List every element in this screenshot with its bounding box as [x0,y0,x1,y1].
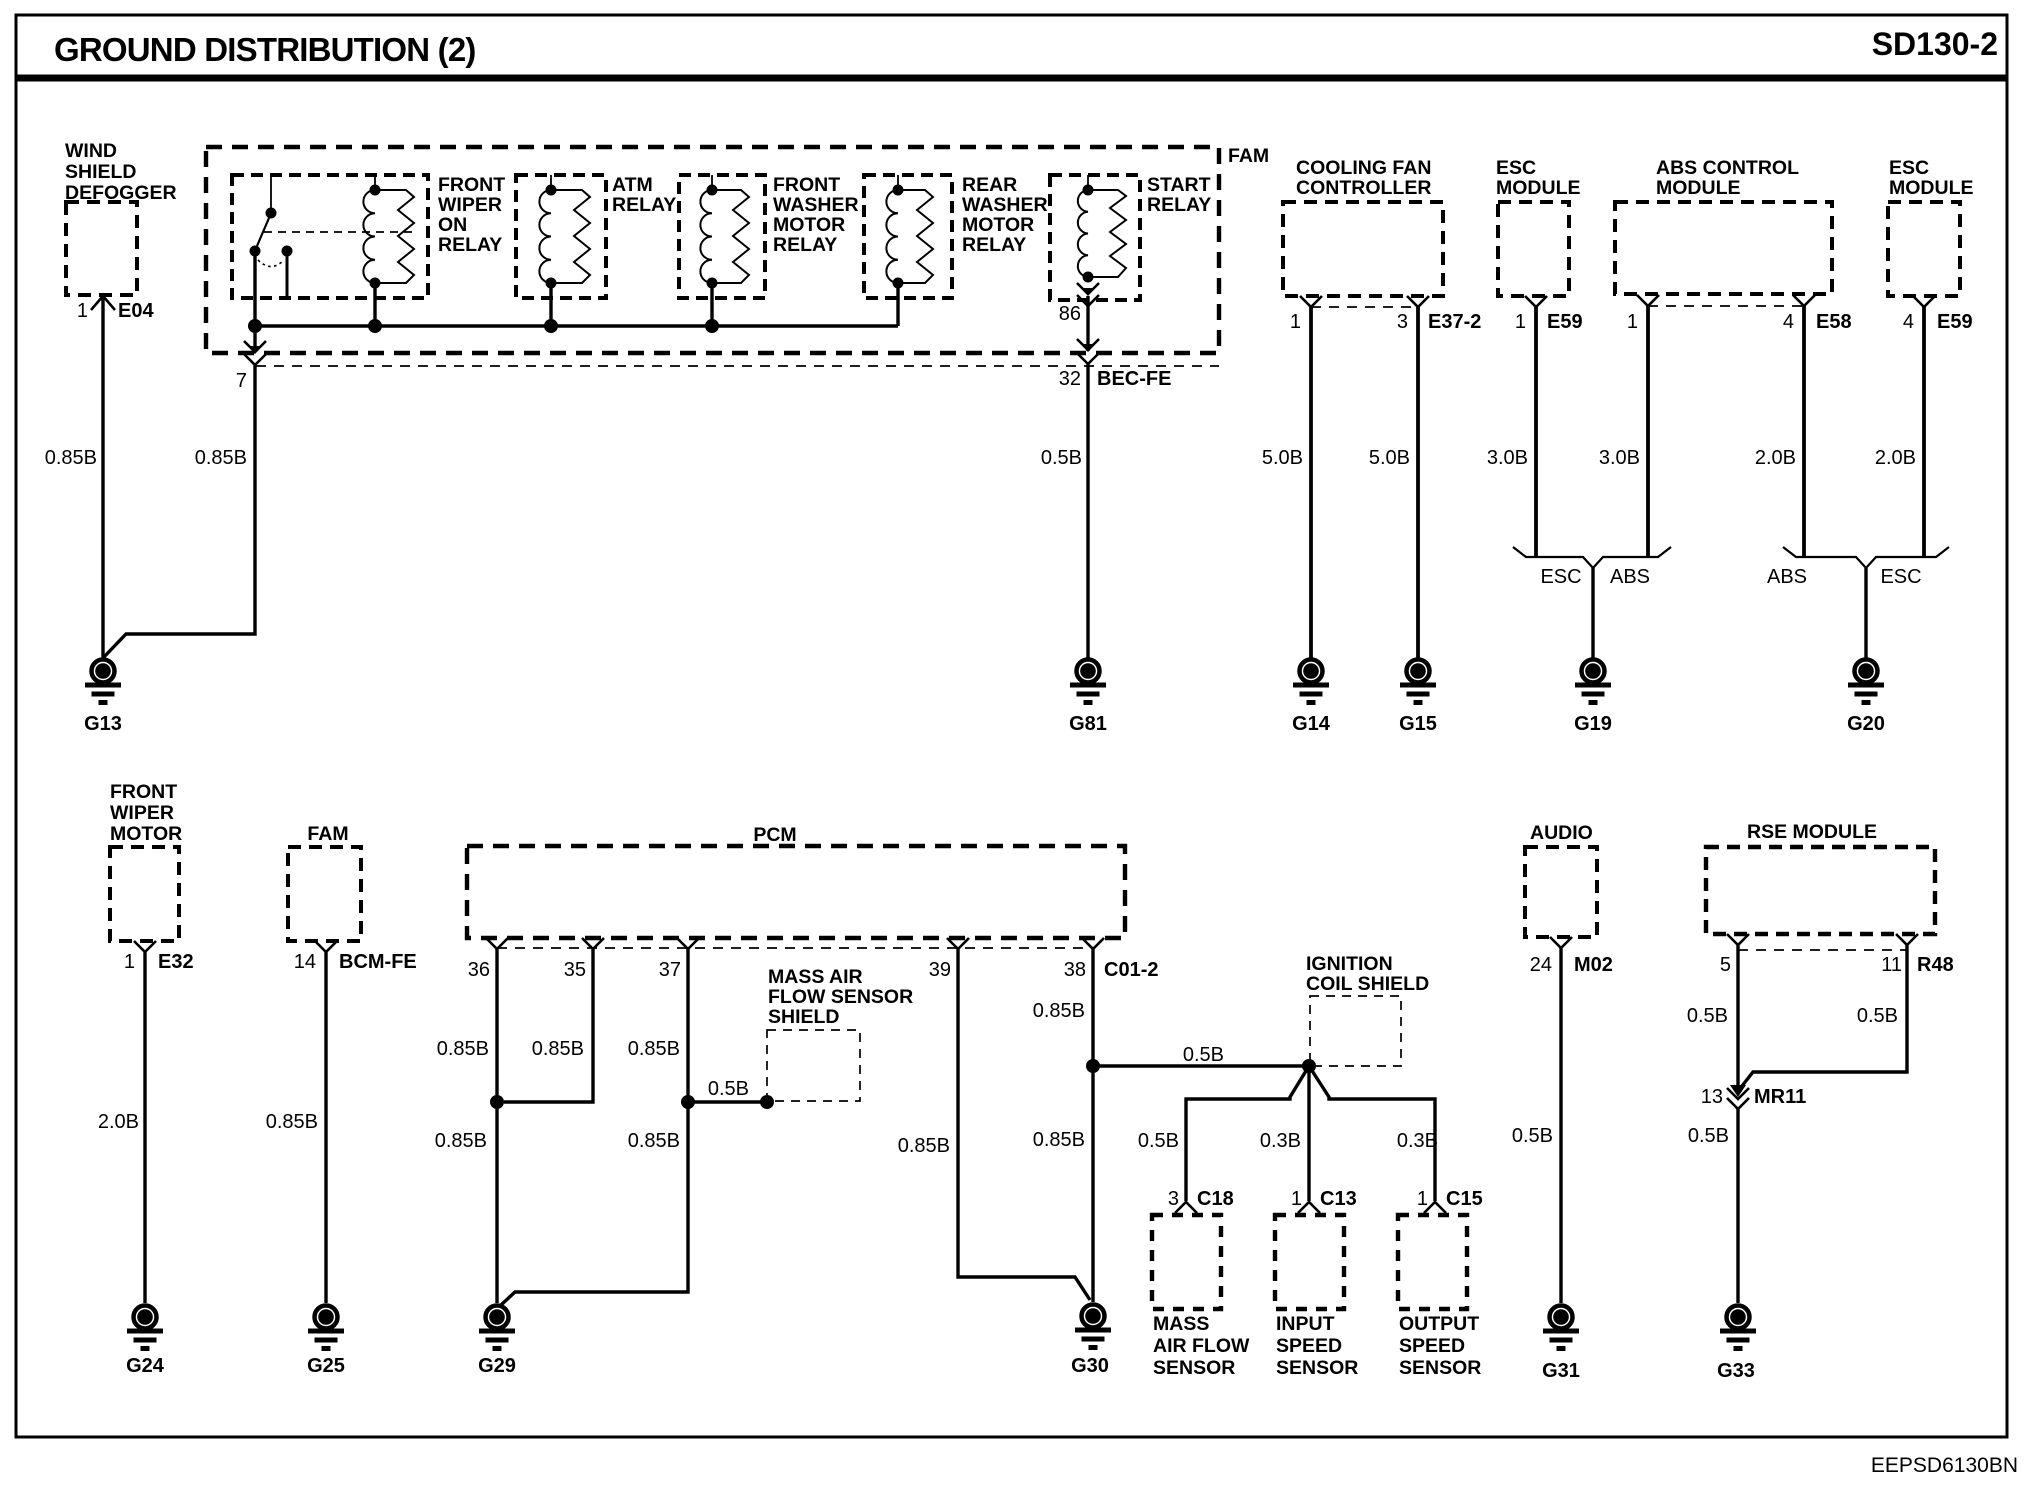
wire 0.5B to mass air flow sensor shield [688,1100,767,1103]
svg-text:SHIELD: SHIELD [65,161,137,183]
svg-text:G31: G31 [1542,1360,1580,1382]
coil of front washer motor relay [700,175,717,289]
svg-text:ABS: ABS [1767,566,1807,588]
svg-text:2.0B: 2.0B [1755,447,1796,469]
svg-text:AUDIO: AUDIO [1530,822,1593,844]
component MASS AIR FLOW SENSOR [1152,1215,1250,1379]
junction bus at switch [248,319,262,333]
wire E32 to G24 [143,952,146,1303]
component AUDIO [1525,822,1597,937]
thin dashed strip under RSE module [1738,949,1907,951]
svg-text:0.85B: 0.85B [628,1130,680,1152]
wire pin 7 to G13 [104,365,255,657]
component FAM bottom [288,823,361,941]
connector pin 1 E04 [77,296,155,322]
svg-text:R48: R48 [1917,954,1954,976]
component ESC MODULE right [1888,157,1974,296]
relay ATM RELAY [516,174,676,298]
svg-text:3: 3 [1397,311,1408,333]
svg-text:INPUT: INPUT [1276,1313,1335,1335]
svg-text:FRONT: FRONT [110,781,177,803]
wire branch to C13 [1307,1066,1310,1201]
wire label 0.85B pin38 lower [1033,1129,1085,1151]
wire label 0.5B shield [708,1078,749,1100]
svg-text:1: 1 [77,300,88,322]
svg-text:0.85B: 0.85B [1033,1000,1085,1022]
svg-text:E58: E58 [1816,311,1852,333]
wire branch to C18 [1186,1066,1309,1201]
svg-text:0.85B: 0.85B [266,1111,318,1133]
splice bracket ABS/ESC to G20 [1767,547,1949,588]
svg-text:1: 1 [1291,1188,1302,1210]
junction pin38 ignition tap [1086,1059,1100,1073]
svg-text:G81: G81 [1069,713,1107,735]
svg-text:MOTOR: MOTOR [773,214,845,236]
wire label 0.85B pin37 upper [628,1038,680,1060]
svg-text:START: START [1147,174,1211,196]
connector pin 35 [564,938,604,981]
coil of rear washer motor relay [886,175,903,289]
svg-text:3.0B: 3.0B [1599,447,1640,469]
svg-text:RELAY: RELAY [1147,194,1211,216]
ground G30 [1071,1305,1111,1378]
svg-text:1: 1 [124,951,135,973]
wire label 0.5B MR11 [1688,1125,1729,1147]
svg-text:39: 39 [929,959,951,981]
svg-text:MASS AIR: MASS AIR [768,966,863,988]
wire M02 to G31 [1559,948,1562,1303]
svg-text:0.5B: 0.5B [1138,1130,1179,1152]
svg-text:MODULE: MODULE [1656,177,1741,199]
svg-text:FRONT: FRONT [773,174,840,196]
wire label 0.85B FAM [266,1111,318,1133]
svg-text:ABS CONTROL: ABS CONTROL [1656,157,1799,179]
svg-text:36: 36 [468,959,490,981]
svg-text:SENSOR: SENSOR [1153,1357,1235,1379]
svg-text:0.85B: 0.85B [435,1130,487,1152]
svg-text:COOLING FAN: COOLING FAN [1296,157,1431,179]
svg-text:IGNITION: IGNITION [1306,953,1393,975]
svg-text:38: 38 [1064,959,1086,981]
ground G19 [1574,660,1612,736]
wire 86 to 32 [1086,296,1089,351]
connector pin 1 C15 [1417,1188,1483,1213]
svg-text:MOTOR: MOTOR [110,823,182,845]
connector pin 3 C18 [1168,1188,1234,1213]
component WIND SHIELD DEFOGGER [65,140,177,295]
svg-text:0.5B: 0.5B [1687,1005,1728,1027]
junction pin37 shield tap [681,1095,695,1109]
wire label 0.3B C15 [1397,1130,1438,1152]
wire label 0.5B ignition [1183,1044,1224,1066]
svg-text:0.3B: 0.3B [1260,1130,1301,1152]
svg-text:0.85B: 0.85B [532,1038,584,1060]
junction bus at FWM coil [705,319,719,333]
ground G14 [1292,660,1331,736]
svg-text:FAM: FAM [1228,145,1269,167]
svg-text:ABS: ABS [1610,566,1650,588]
connector pin 1 E58 [1627,295,1659,333]
svg-text:3: 3 [1168,1188,1179,1210]
svg-text:0.85B: 0.85B [1033,1129,1085,1151]
svg-text:E59: E59 [1547,311,1583,333]
connector pin 14 BCM-FE [294,941,417,973]
svg-text:OUTPUT: OUTPUT [1399,1313,1479,1335]
wire pin35 to junction [504,949,593,1102]
svg-text:FLOW SENSOR: FLOW SENSOR [768,986,913,1008]
svg-text:ATM: ATM [612,174,653,196]
svg-text:FAM: FAM [307,823,348,845]
component INPUT SPEED SENSOR [1275,1215,1358,1379]
ground G20 [1847,660,1885,736]
ground G15 [1399,660,1437,736]
svg-text:G19: G19 [1574,713,1612,735]
svg-text:1: 1 [1627,311,1638,333]
svg-text:4: 4 [1783,311,1794,333]
svg-text:ESC: ESC [1496,157,1536,179]
wire switch to bus [253,255,256,326]
svg-text:WASHER: WASHER [962,194,1048,216]
wire label 0.5B pin11 [1857,1005,1898,1027]
ground G25 [307,1306,345,1378]
svg-text:0.85B: 0.85B [898,1135,950,1157]
wire label 0.85B pin35 [532,1038,584,1060]
junction pin36/pin35 [490,1095,504,1109]
wire pin5 to MR11 [1736,945,1739,1090]
svg-text:5.0B: 5.0B [1262,447,1303,469]
svg-text:0.85B: 0.85B [437,1038,489,1060]
connector pin 36 [468,938,508,981]
component IGNITION COIL SHIELD [1306,953,1429,1066]
relay FRONT WASHER MOTOR RELAY [679,174,859,298]
wire FAM ground bus [255,288,898,326]
svg-text:G20: G20 [1847,713,1885,735]
ground G13 [84,660,122,736]
connector pin 4 E59 [1903,296,1973,333]
svg-text:SPEED: SPEED [1276,1335,1342,1357]
svg-text:MR11: MR11 [1754,1086,1806,1108]
wire label 0.85B pin7 [195,447,247,469]
svg-text:SPEED: SPEED [1399,1335,1465,1357]
svg-text:7: 7 [236,370,247,392]
wire ESC2 pin4 down [1922,307,1926,557]
connector pin 1 C13 [1291,1188,1357,1213]
resistor of ATM relay [551,190,590,283]
wire pin3 to G15 [1416,307,1420,658]
title GROUND DISTRIBUTION (2) [54,31,476,68]
wire label 0.3B C13 [1260,1130,1301,1152]
wire ABS pin4 down [1802,306,1806,557]
svg-text:3.0B: 3.0B [1487,447,1528,469]
resistor of front washer motor relay [712,190,749,283]
wire label 0.5B BEC-FE [1041,447,1082,469]
connector pin 3 E37-2 [1397,296,1482,333]
wire label 5.0B left [1262,447,1303,469]
switch in front wiper on relay [250,175,415,298]
wire 32 to G81 [1086,364,1089,658]
svg-text:14: 14 [294,951,316,973]
svg-text:0.5B: 0.5B [1183,1044,1224,1066]
coil of ATM relay [539,175,556,289]
wire label 3.0B left [1487,447,1528,469]
wire label 2.0B left [1755,447,1796,469]
svg-text:G24: G24 [126,1355,165,1377]
svg-text:RELAY: RELAY [773,234,837,256]
svg-text:2.0B: 2.0B [1875,447,1916,469]
wire pin38 to G30 [1091,949,1094,1302]
wire coil1 to bus [373,288,376,326]
wire label 0.5B audio [1512,1125,1553,1147]
connector pin 24 M02 [1530,937,1613,976]
svg-text:CONTROLLER: CONTROLLER [1296,177,1431,199]
wire pin36 to G29 [495,949,498,1303]
svg-text:BEC-FE: BEC-FE [1097,368,1171,390]
junction ignition coil shield node [1302,1059,1316,1073]
svg-text:37: 37 [659,959,681,981]
wire label 0.85B [45,447,97,469]
wire label 0.5B C18 [1138,1130,1179,1152]
coil of front wiper on relay [363,175,380,289]
connector pin 7 inline [236,341,266,392]
connector pin 5 R48 [1720,934,1749,976]
ground G81 [1069,660,1107,736]
svg-text:MASS: MASS [1153,1313,1209,1335]
svg-text:SHIELD: SHIELD [768,1006,840,1028]
svg-text:MODULE: MODULE [1889,177,1974,199]
thin dashed connector strip under FAM [256,365,1219,367]
wire 0.5B to ignition coil shield [1093,1064,1309,1067]
svg-text:1: 1 [1417,1188,1428,1210]
svg-text:RELAY: RELAY [962,234,1026,256]
svg-text:C13: C13 [1320,1188,1357,1210]
component MASS AIR FLOW SENSOR SHIELD [767,966,913,1101]
node shield terminal [760,1095,774,1109]
svg-text:C18: C18 [1197,1188,1234,1210]
svg-text:0.85B: 0.85B [195,447,247,469]
svg-text:E59: E59 [1937,311,1973,333]
ground G29 [478,1306,516,1378]
wire label 2.0B right [1875,447,1916,469]
svg-text:5: 5 [1720,954,1731,976]
wire bus to pin 7 [253,326,256,352]
svg-text:WIPER: WIPER [438,194,502,216]
connector pin 86 start relay [1059,283,1099,325]
relay FRONT WIPER ON RELAY [232,174,505,298]
svg-text:0.5B: 0.5B [1512,1125,1553,1147]
svg-text:0.5B: 0.5B [1688,1125,1729,1147]
connector pin 39 [929,938,969,981]
svg-text:M02: M02 [1574,954,1613,976]
svg-text:RELAY: RELAY [612,194,676,216]
relay REAR WASHER MOTOR RELAY [864,174,1048,298]
svg-text:FRONT: FRONT [438,174,505,196]
label EEPSD6130BN [1871,1454,2018,1477]
splice bracket ESC/ABS to G19 [1513,547,1671,588]
svg-text:13: 13 [1701,1086,1723,1108]
svg-text:RSE MODULE: RSE MODULE [1747,821,1877,843]
junction bus at ATM coil [544,319,558,333]
svg-text:MODULE: MODULE [1496,177,1581,199]
wire BCM-FE to G25 [324,952,327,1303]
svg-text:PCM: PCM [753,824,796,846]
svg-text:0.85B: 0.85B [628,1038,680,1060]
wire label 0.85B pin36 upper [437,1038,489,1060]
svg-text:COIL SHIELD: COIL SHIELD [1306,973,1429,995]
svg-text:0.3B: 0.3B [1397,1130,1438,1152]
svg-text:1: 1 [1515,311,1526,333]
svg-text:G14: G14 [1292,713,1331,735]
svg-text:REAR: REAR [962,174,1017,196]
component FRONT WIPER MOTOR [110,781,182,941]
svg-text:0.5B: 0.5B [1857,1005,1898,1027]
svg-text:WIPER: WIPER [110,802,174,824]
svg-text:ON: ON [438,214,467,236]
svg-text:E04: E04 [118,300,154,322]
svg-text:G29: G29 [478,1355,516,1377]
svg-text:0.5B: 0.5B [708,1078,749,1100]
connector pin 1 E59 [1515,296,1583,333]
connector pin 38 C01-2 [1064,938,1159,981]
wire pin1 to G14 [1309,307,1313,658]
label SD130-2 [1872,26,1998,62]
resistor of front wiper on relay [375,190,414,283]
wire label 0.85B pin38 upper [1033,1000,1085,1022]
relay START RELAY [1050,174,1211,300]
svg-text:G30: G30 [1071,1355,1109,1377]
svg-text:G25: G25 [307,1355,345,1377]
wire pin37 down [501,949,688,1305]
svg-text:ESC: ESC [1540,566,1581,588]
connector pin 37 [659,938,699,981]
ground G24 [126,1306,165,1378]
svg-text:G13: G13 [84,713,122,735]
wire splice to G20 [1864,568,1867,658]
thin dashed strip under PCM [497,947,1093,949]
svg-text:0.85B: 0.85B [45,447,97,469]
component ESC MODULE left [1496,157,1581,296]
wire label 3.0B right [1599,447,1640,469]
wire FWM coil to bus [710,288,713,326]
svg-text:2.0B: 2.0B [98,1111,139,1133]
svg-text:C01-2: C01-2 [1104,959,1158,981]
wire E04 to G13 [101,296,104,658]
svg-text:86: 86 [1059,303,1081,325]
svg-text:0.5B: 0.5B [1041,447,1082,469]
wire ESC pin1 down [1534,307,1538,557]
svg-text:SENSOR: SENSOR [1399,1357,1481,1379]
svg-text:35: 35 [564,959,586,981]
svg-text:BCM-FE: BCM-FE [339,951,417,973]
junction bus at coil1 [368,319,382,333]
wire MR11 to G33 [1736,1109,1739,1303]
wire splice to G19 [1591,568,1594,658]
wire label 5.0B right [1369,447,1410,469]
coil of start relay [1078,175,1094,283]
wire branch to C15 [1309,1066,1435,1201]
svg-text:GROUND DISTRIBUTION (2): GROUND DISTRIBUTION (2) [54,31,476,68]
svg-text:SD130-2: SD130-2 [1872,26,1998,62]
component OUTPUT SPEED SENSOR [1398,1215,1481,1379]
svg-text:WASHER: WASHER [773,194,859,216]
svg-text:5.0B: 5.0B [1369,447,1410,469]
connector pin 1 E32 [124,941,194,973]
connector pin 11 R48 [1881,934,1953,976]
wire pin11 to MR11 [1742,945,1907,1086]
svg-text:SENSOR: SENSOR [1276,1357,1358,1379]
component ABS CONTROL MODULE [1615,157,1832,294]
svg-text:ESC: ESC [1880,566,1921,588]
resistor of rear washer motor relay [898,190,933,283]
thin dashed strip under cooling fan controller [1311,306,1418,308]
component COOLING FAN CONTROLLER [1283,157,1443,296]
connector pin 32 BEC-FE [1059,339,1172,390]
wire label 0.85B pin36 lower [435,1130,487,1152]
svg-text:RELAY: RELAY [438,234,502,256]
svg-text:MOTOR: MOTOR [962,214,1034,236]
svg-text:WIND: WIND [65,140,117,162]
thin dashed strip under ABS control module [1648,305,1804,307]
svg-text:AIR FLOW: AIR FLOW [1153,1335,1250,1357]
component PCM [467,824,1125,938]
svg-text:EEPSD6130BN: EEPSD6130BN [1871,1454,2018,1477]
component RSE MODULE [1706,821,1935,934]
svg-text:32: 32 [1059,368,1081,390]
ground G31 [1542,1306,1580,1383]
resistor of start relay [1088,190,1126,277]
FAM box [206,145,1269,353]
svg-text:24: 24 [1530,954,1552,976]
svg-text:G33: G33 [1717,1360,1755,1382]
svg-text:G15: G15 [1399,713,1437,735]
wire ABS pin1 down [1646,306,1650,557]
wire ATM coil to bus [549,288,552,326]
svg-text:E37-2: E37-2 [1428,311,1481,333]
svg-text:1: 1 [1290,311,1301,333]
wire label 0.85B pin39 [898,1135,950,1157]
svg-text:ESC: ESC [1889,157,1929,179]
connector pin 1 E37-2 [1290,296,1322,333]
wire label 0.85B pin37 lower [628,1130,680,1152]
svg-text:4: 4 [1903,311,1914,333]
ground G33 [1717,1306,1756,1383]
svg-text:E32: E32 [158,951,194,973]
wire label 2.0B [98,1111,139,1133]
svg-text:C15: C15 [1446,1188,1483,1210]
wire label 0.5B pin5 [1687,1005,1728,1027]
connector pin 13 MR11 inline [1701,1085,1807,1109]
wire pin39 to G30 [958,949,1090,1300]
connector pin 4 E58 [1783,295,1852,333]
svg-text:11: 11 [1881,954,1902,976]
